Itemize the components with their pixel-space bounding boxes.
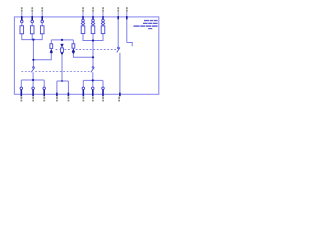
- wire pin3-R3: [41, 23, 43, 26]
- node dot at A-chain/D1: [32, 59, 34, 61]
- wire right tee pin c: [102, 80, 104, 87]
- bottom pin label 1: [21, 97, 121, 102]
- varactor diamond D6: [101, 22, 104, 25]
- wire pin1-R1: [21, 23, 23, 26]
- pin 6 circle: [102, 19, 105, 22]
- wire left tee pin b: [32, 80, 34, 87]
- wire bottom pin 5: [67, 81, 69, 94]
- pin 5 top stub: [92, 16, 94, 19]
- wire A-chain down: [32, 40, 34, 67]
- diode D3 body: [72, 44, 75, 48]
- node rail B: [83, 40, 103, 42]
- top pin label 7: [117, 7, 119, 9]
- bottom pin circle 3: [43, 87, 46, 90]
- bottom pin label 6: [83, 97, 85, 99]
- node dot D2 bottom: [61, 52, 63, 54]
- node dot B: [92, 39, 94, 41]
- wire D2 down: [61, 44, 63, 81]
- node dot D3 bottom: [72, 51, 74, 53]
- bottom pin label 7: [92, 97, 94, 99]
- bottom pin stub 2: [32, 90, 34, 97]
- resistor R4: [81, 26, 85, 34]
- pin 1 circle: [21, 19, 105, 22]
- bottom pin label 8: [102, 97, 104, 99]
- node rail A: [22, 39, 42, 41]
- pin 3 top stub: [41, 16, 43, 20]
- bottom pin stub 5: [67, 93, 69, 97]
- node dot A: [32, 39, 94, 42]
- diode D3 arrow: [72, 48, 75, 52]
- pin 2 circle: [31, 20, 34, 23]
- pin 4 top stub: [82, 16, 84, 19]
- bottom pin label 9: [118, 97, 120, 99]
- wire pin2-R2: [31, 23, 33, 26]
- wire S2 to right tee: [92, 72, 94, 80]
- wire bottom pin 4: [56, 81, 58, 94]
- left tee bar: [21, 79, 44, 81]
- bottom pin stub 3: [43, 90, 45, 97]
- bottom pin circle 1: [20, 87, 104, 90]
- bottom pin circle 2: [32, 87, 35, 90]
- wires pins to resistors: [22, 19, 132, 93]
- pin 5 circle: [92, 19, 95, 22]
- varactor diamond D5: [91, 22, 94, 25]
- bottom pin stub 8: [102, 90, 104, 97]
- diode D2 body: [61, 48, 64, 52]
- top pin label 5: [92, 7, 94, 9]
- diode network top rail: [33, 40, 93, 81]
- diode D1 body: [50, 44, 75, 53]
- bottom pin stub 9: [119, 93, 121, 97]
- IC package border: [14, 17, 158, 94]
- wire R1 bottom: [21, 34, 23, 40]
- bottom pin stub 4: [56, 93, 58, 97]
- node dot D2 tee: [61, 80, 63, 82]
- wire left tee pin c: [43, 80, 45, 87]
- diode D2 arrow: [60, 44, 63, 48]
- wire D2 tee bar: [57, 80, 69, 82]
- bottom pin stub 7: [92, 90, 94, 97]
- wire pin8 bend: [127, 43, 132, 47]
- varactor diamond D4: [81, 22, 104, 25]
- bottom pin stub 6: [82, 90, 84, 97]
- wire right tee pin a: [82, 80, 84, 87]
- wire left tee pin a: [20, 80, 22, 87]
- resistor R5: [91, 26, 95, 34]
- resistor R2: [30, 26, 34, 34]
- dashed gang line upper: [21, 50, 117, 72]
- top pin lead wires: [22, 12, 127, 16]
- wire R5 bottom: [92, 34, 94, 41]
- wire S1 to left tee: [21, 72, 103, 94]
- title text block: [134, 20, 158, 29]
- node dot left tee: [32, 79, 94, 82]
- node dot diode rail: [32, 39, 94, 61]
- wire D3 bottom bend: [73, 52, 93, 58]
- pin 3 circle: [41, 20, 44, 23]
- wire switch3 down: [119, 53, 121, 94]
- bottom pin circle 6: [82, 87, 85, 90]
- pin 8 top stub: [126, 16, 128, 19]
- top pin label 3: [41, 7, 43, 9]
- node dot at B-chain/D3: [92, 56, 94, 58]
- wire D1 top: [50, 40, 52, 44]
- pin 7 top stub: [117, 16, 119, 19]
- right tee bar: [83, 79, 103, 81]
- wire pin5-R5: [92, 24, 94, 27]
- pin 2 top stub: [31, 16, 33, 20]
- bottom pin label 4: [56, 97, 58, 99]
- top pin label 1: [21, 7, 23, 9]
- wire R4 bottom: [82, 34, 84, 41]
- dashed gang line lower: [21, 71, 31, 73]
- wire pin8 down: [126, 19, 128, 42]
- wire R2 bottom: [31, 34, 33, 40]
- resistor R6: [101, 26, 105, 34]
- pin 6 top stub: [102, 16, 104, 19]
- resistor R1: [20, 26, 105, 34]
- bottom pin label 5: [68, 97, 70, 99]
- top pin label 8: [126, 7, 128, 9]
- diode D1 arrow: [50, 44, 76, 53]
- switch S1: [31, 47, 120, 72]
- bottom pin circle 7: [92, 87, 95, 90]
- switch S2: [92, 67, 94, 69]
- top pin label 1: [21, 7, 128, 12]
- pin 4 circle: [82, 19, 85, 22]
- wire pin4-R4: [82, 24, 84, 27]
- top pin label 4: [82, 7, 84, 9]
- top pin label 2: [31, 7, 33, 9]
- wire right tee pin b: [92, 80, 94, 87]
- wire pin6-R6: [102, 24, 104, 27]
- pin 1 top stub: [22, 16, 127, 20]
- wire R6 bottom: [102, 34, 104, 41]
- bottom pin stub 1: [21, 90, 120, 97]
- node dot D1 bottom: [50, 51, 52, 53]
- wire pin7 down: [117, 19, 119, 47]
- bottom pin label 2: [32, 97, 34, 99]
- node dot right tee: [92, 79, 94, 81]
- resistor R3: [40, 26, 44, 34]
- switch S3: [118, 47, 120, 49]
- bottom pin label 3: [43, 97, 45, 99]
- bottom pin circle 8: [102, 87, 105, 90]
- wire D1 bottom bend: [33, 52, 51, 59]
- wire D3 top: [72, 40, 74, 44]
- top pin label 6: [102, 7, 104, 9]
- wire R3 bottom: [41, 34, 43, 40]
- wire B-chain down: [92, 41, 94, 67]
